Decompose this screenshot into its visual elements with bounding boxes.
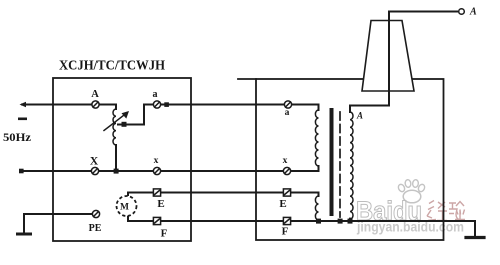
terminal x (tank) [283,167,290,174]
paw toe 3 [412,179,419,187]
junction after terminal a [164,102,169,107]
svg-text:x: x [154,156,159,166]
wire: supply top lead to variac top [22,105,116,110]
svg-text:F: F [282,226,289,238]
primary winding a-x [315,110,318,166]
wiper contact dot [122,122,127,127]
svg-text:A: A [356,111,363,121]
svg-text:A: A [469,7,477,18]
ground tank earth bar [466,236,484,239]
wire: E terminal to measuring winding top [287,193,319,197]
transformer tank enclosure [256,79,444,240]
wire: HV winding bottom to rail [349,219,351,221]
terminal X (box input) [91,167,98,174]
terminal E (tank) [283,189,290,196]
wire: wiper tap to terminal a and across to tank [118,105,288,125]
wire: tank ground drop [474,221,476,236]
control box enclosure [53,78,191,241]
ground PE earth bar [18,233,31,236]
label AC symbol [18,118,27,121]
core earth screen dashed line [339,112,341,217]
wire: HV winding top to bushing terminal A [350,12,457,113]
svg-text:PE: PE [89,223,102,234]
terminal A HV output [459,9,465,15]
HV winding coil [350,112,353,219]
bushing insulator [362,21,414,92]
variac arrowhead [122,111,130,119]
terminal F (box) [153,217,160,224]
svg-text:x: x [283,156,288,166]
variac winding T1 [113,109,116,145]
terminal a (box output) [153,101,160,108]
terminal A (box input) [91,9,464,225]
paw toe 2 [405,179,412,187]
svg-text:F: F [161,228,168,240]
voltmeter P1 [117,196,137,216]
junction core screen to rail [338,219,343,224]
transformer core bar [330,108,334,216]
terminal x (box output) [153,167,160,174]
watermark Baidu Jingyan [356,179,465,234]
terminal E (box) [153,189,160,196]
svg-text:50Hz: 50Hz [3,130,32,144]
wire: bottom common rail X to primary bottom [22,166,319,171]
svg-text:a: a [153,89,158,100]
svg-text:XCJH/TC/TCWJH: XCJH/TC/TCWJH [59,59,165,74]
measuring winding E-F [315,196,318,220]
wire: voltmeter bottom to F ground rail [128,216,475,221]
supply top lead arrowhead [20,102,27,107]
junction HV winding bottom [348,219,353,224]
wire: PE lead [24,214,93,234]
junction variac-rail [114,169,119,174]
svg-text:M: M [120,203,129,213]
svg-text:A: A [91,89,99,100]
terminal F (tank) [283,217,290,224]
paw toe 4 [417,183,426,192]
wire: voltmeter top to E rail [128,193,287,196]
svg-text:E: E [157,198,164,210]
paw toe 1 [397,183,406,192]
variac wiper arrow [104,114,126,131]
terminal a (tank) [284,101,291,108]
svg-text:X: X [90,156,99,168]
terminal PE [92,210,99,217]
junction measuring winding bottom [316,219,321,224]
watermark word jingyan (经验 drawn as vector strokes) [427,201,465,221]
wire: tank terminal a to primary top [288,105,319,111]
wire: variac bottom to rail [115,145,117,171]
paw palm [403,190,421,203]
tank top edge overhang [238,78,256,80]
supply bottom lead dot [19,169,24,174]
svg-text:E: E [279,198,286,210]
svg-text:a: a [285,108,290,118]
